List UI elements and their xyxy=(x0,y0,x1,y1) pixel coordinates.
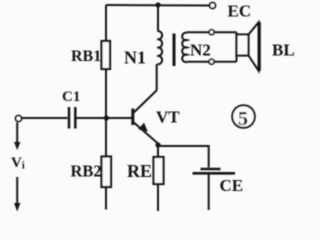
svg-text:C1: C1 xyxy=(62,89,80,105)
resistor RE xyxy=(154,145,164,211)
svg-text:RE: RE xyxy=(127,161,152,181)
terminal top (open circle) xyxy=(209,30,214,35)
figure number 5 (circled) xyxy=(232,105,255,130)
svg-text:5: 5 xyxy=(238,108,248,130)
svg-text:BL: BL xyxy=(272,41,295,60)
node emitter junction xyxy=(155,142,160,147)
wire C1 to base xyxy=(77,117,132,119)
inductor N2 (transformer secondary) xyxy=(182,33,187,63)
wire input to C1 xyxy=(22,117,68,119)
svg-text:EC: EC xyxy=(228,2,252,21)
resistor RB1 xyxy=(102,5,111,118)
wire emitter to CE xyxy=(158,146,209,168)
node junction base rail / RB1 / RB2 xyxy=(104,115,109,120)
terminal input Vi (open circle) xyxy=(16,116,22,122)
svg-text:N1: N1 xyxy=(124,48,146,68)
wire top supply rail xyxy=(106,4,210,7)
inductor N1 (transformer primary) xyxy=(157,5,162,90)
wire N2 bottom to speaker xyxy=(187,56,237,62)
capacitor C1 xyxy=(69,107,75,129)
terminal EC (open circle) xyxy=(210,3,216,9)
capacitor CE xyxy=(193,169,236,210)
resistor RB2 xyxy=(102,118,112,210)
transformer core xyxy=(173,34,176,67)
arrow input upper xyxy=(14,123,20,151)
svg-text:RB1: RB1 xyxy=(71,48,101,65)
node junction top rail / N1 xyxy=(155,2,160,7)
transistor VT xyxy=(131,90,158,144)
speaker BL xyxy=(237,22,260,71)
terminal bottom (open circle) xyxy=(209,59,214,64)
svg-text:CE: CE xyxy=(220,176,244,195)
svg-text:N2: N2 xyxy=(190,41,211,60)
arrow input lower xyxy=(14,177,20,212)
svg-text:VT: VT xyxy=(156,108,180,127)
svg-text:RB2: RB2 xyxy=(71,162,102,181)
wire N2 top to speaker xyxy=(187,32,237,35)
